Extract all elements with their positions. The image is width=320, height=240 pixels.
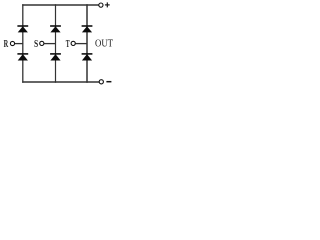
wire: S input stub	[44, 43, 56, 45]
wire: leg 3 vertical (T phase)	[86, 4, 88, 83]
svg-text:S: S	[34, 38, 38, 50]
label + sign	[105, 2, 110, 7]
terminal S input circle	[40, 41, 44, 45]
svg-text:R: R	[4, 38, 9, 50]
diode D2 upper (leg 2)	[50, 26, 61, 32]
diode D1 upper (leg 1)	[17, 26, 28, 32]
diode D3 upper (leg 3)	[82, 26, 93, 32]
diode D4 lower (leg 1)	[17, 54, 28, 61]
wire: leg 2 vertical (S phase)	[55, 4, 57, 83]
label - sign	[106, 81, 111, 83]
wire: R input stub	[15, 43, 23, 45]
wire: T input stub	[76, 43, 88, 45]
diode D6 lower (leg 3)	[82, 54, 93, 61]
wire: top positive rail	[22, 4, 99, 6]
three-phase bridge rectifier schematic	[0, 0, 120, 88]
terminal R input circle	[10, 41, 14, 45]
terminal output negative circle	[99, 80, 103, 84]
wire: bottom negative rail	[22, 81, 99, 83]
diode D5 lower (leg 2)	[50, 54, 61, 61]
terminal T input circle	[71, 41, 75, 45]
wire: leg 1 vertical (R phase)	[22, 4, 24, 83]
terminal output positive circle	[99, 3, 103, 7]
svg-text:T: T	[66, 38, 70, 50]
svg-text:OUT: OUT	[95, 38, 113, 50]
